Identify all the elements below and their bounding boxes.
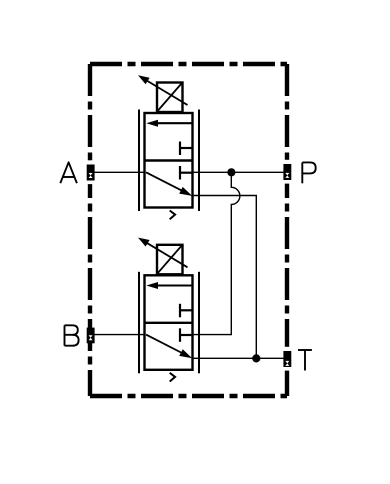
- valve V1 top position blocked port symbol: [180, 142, 193, 156]
- valve V2 bottom position blocked port symbol: [180, 328, 193, 342]
- valve V2 top position blocked port symbol: [180, 304, 193, 318]
- port label P: [302, 162, 315, 183]
- port label A: [60, 162, 77, 183]
- valve V1 adjustability arrow through solenoid: [138, 75, 188, 105]
- wire B to valve V2: [91, 334, 145, 336]
- wire T line from valve V2 to port T: [193, 357, 285, 359]
- wire A to valve V1: [91, 171, 145, 173]
- valve V1 bottom position blocked port symbol: [180, 166, 193, 180]
- valve V2 position divider: [145, 322, 193, 324]
- valve V2 body envelope: [145, 275, 193, 370]
- port P marker: [283, 160, 292, 184]
- valve V2 solenoid box diagonal: [158, 246, 182, 273]
- valve V1 proportional solenoid box: [157, 83, 183, 113]
- valve V2 spring chevron: [170, 373, 175, 382]
- valve V1 right side rail: [198, 110, 200, 212]
- valve V2 left side rail: [138, 272, 140, 374]
- valve V2 adjustability arrow through solenoid: [138, 238, 188, 268]
- wire P line from valve V1 to port P: [193, 171, 285, 173]
- enclosure dashed border (subplate outline): [90, 64, 287, 396]
- valve V2 top position flow arrow: [146, 282, 191, 289]
- valve V1 position divider: [145, 159, 193, 161]
- valve V2 bottom position diagonal flow arrow: [146, 335, 192, 359]
- port B marker: [87, 328, 95, 344]
- port label T: [298, 350, 312, 371]
- valve V2 right side rail: [198, 272, 200, 374]
- valve V1 body envelope: [145, 113, 193, 208]
- wire from P junction down with hop over crossing, to valve V2 right port: [193, 172, 240, 334]
- port T marker: [283, 347, 292, 371]
- valve V1 left side rail: [138, 110, 140, 212]
- wire from valve V1 lower right port to T line: [193, 196, 257, 359]
- valve V1 bottom position diagonal flow arrow: [146, 172, 192, 196]
- valve V1 top position flow arrow: [146, 120, 191, 127]
- port A marker: [86, 160, 95, 184]
- valve V1 spring chevron: [170, 211, 175, 220]
- port label B: [65, 325, 79, 345]
- valve V2 proportional solenoid box: [157, 245, 183, 274]
- junction dot on T line: [252, 354, 260, 362]
- junction dot on P line: [227, 168, 235, 176]
- valve V1 solenoid box diagonal: [158, 84, 182, 111]
